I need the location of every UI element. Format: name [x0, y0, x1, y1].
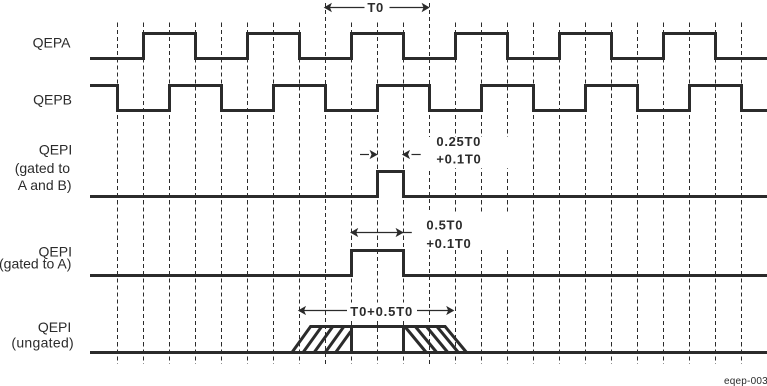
0.25T0 dimension arrows	[360, 151, 421, 158]
T0 period gridline right	[429, 3, 431, 364]
QEPI (gated to A) label	[0, 243, 72, 271]
0.5T0 dimension arrows	[351, 229, 412, 236]
QEPI (ungated) left uncertainty hatching	[303, 327, 351, 353]
QEPI (ungated) right uncertainty hatching	[405, 327, 459, 353]
svg-text:(ungated): (ungated)	[11, 334, 74, 350]
QEPI (gated to A) waveform	[90, 251, 767, 276]
svg-text:(gated to A): (gated to A)	[0, 255, 71, 271]
svg-text:eqep-003: eqep-003	[724, 376, 767, 386]
QEPA waveform	[90, 34, 767, 59]
T0+0.5T0 dimension arrows	[299, 307, 454, 314]
QEPB waveform	[90, 86, 767, 111]
0.25T0 +0.1T0 value label	[425, 134, 509, 168]
svg-text:QEPI: QEPI	[38, 319, 71, 335]
T0 dimension arrows	[325, 4, 429, 11]
T0 period gridline left	[325, 3, 327, 364]
QEPI (ungated) earliest-edge line left	[350, 327, 353, 353]
T0+0.5T0 value label	[348, 303, 415, 321]
svg-text:+0.1T0: +0.1T0	[426, 236, 471, 251]
svg-text:(gated to: (gated to	[15, 160, 70, 176]
svg-text:T0+0.5T0: T0+0.5T0	[350, 304, 413, 319]
svg-text:T0: T0	[367, 0, 384, 15]
QEPI (ungated) pulse envelope	[292, 327, 467, 353]
svg-text:A and B): A and B)	[18, 177, 72, 193]
svg-text:QEPA: QEPA	[33, 35, 72, 51]
svg-text:0.25T0: 0.25T0	[436, 134, 481, 149]
svg-text:+0.1T0: +0.1T0	[436, 152, 481, 167]
QEPI (gated to A and B) waveform	[90, 172, 767, 197]
QEPI (gated to A and B) label	[15, 142, 73, 194]
svg-text:QEPI: QEPI	[39, 142, 72, 158]
QEPI (ungated) earliest-edge line right	[402, 327, 405, 353]
QEPI (ungated) label	[11, 319, 74, 351]
0.5T0 +0.1T0 value label	[413, 213, 509, 251]
QEPI (ungated) baseline	[90, 351, 767, 354]
svg-text:0.5T0: 0.5T0	[426, 218, 463, 233]
svg-text:QEPB: QEPB	[33, 92, 72, 108]
timing gridlines	[118, 23, 742, 364]
